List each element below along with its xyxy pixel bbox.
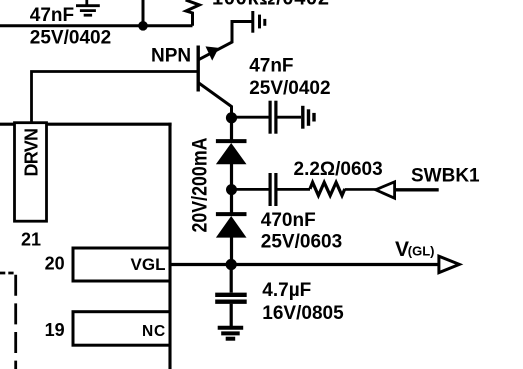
svg-text:(GL): (GL) [408, 244, 435, 259]
node junction dot 1 (emitter node) [226, 112, 237, 123]
svg-text:470nF: 470nF [261, 210, 316, 231]
wire dot2 to D2 [230, 190, 233, 214]
svg-text:47nF: 47nF [30, 5, 74, 26]
signal line VGL output [170, 263, 439, 266]
svg-text:16V/0805: 16V/0805 [262, 303, 344, 324]
collector lead [199, 22, 252, 60]
wire resistor to SWBK1 arrow [345, 188, 377, 191]
pin box DRVN [15, 123, 47, 222]
wire capacitor to ground [230, 304, 233, 326]
svg-text:VGL: VGL [131, 255, 166, 274]
IC outline top edge [0, 123, 172, 126]
resistor 2.2Ohm/0603 [310, 182, 345, 195]
wire D1 to dot2 [230, 163, 233, 190]
node junction dot 3 (VGL node) [226, 259, 237, 270]
capacitor 47nF 25V/0402 [270, 101, 276, 134]
open arrow V(GL) (points right) [439, 256, 459, 272]
capacitor 4.7uF 16V/0805 [215, 295, 247, 302]
wire dot1 to capacitor C 47nF [232, 116, 269, 119]
ground (bottom, vertical symbol) [218, 328, 244, 339]
wire dot2 to capacitor 470nF [232, 188, 269, 191]
wire capacitor to resistor [277, 188, 310, 191]
base bar [196, 46, 199, 92]
pin box VGL [73, 248, 170, 281]
svg-text:25V/0402: 25V/0402 [30, 28, 111, 49]
svg-text:25V/0402: 25V/0402 [249, 78, 330, 99]
pin box NC [73, 312, 170, 346]
wire top-left horizontal [0, 24, 193, 27]
svg-text:100kΩ/0402: 100kΩ/0402 [212, 0, 329, 10]
svg-text:2.2Ω/0603: 2.2Ω/0603 [294, 159, 383, 180]
diode D1 [216, 141, 247, 164]
ground (top-left, vertical symbol) [76, 0, 100, 15]
svg-text:NPN: NPN [151, 45, 191, 66]
svg-text:4.7µF: 4.7µF [262, 280, 311, 301]
wire base to IC [32, 72, 199, 125]
svg-text:21: 21 [21, 230, 41, 250]
IC outline right edge [168, 123, 171, 369]
dashed boundary horizontal [0, 272, 16, 275]
node junction dot top-left [138, 21, 148, 31]
wire dot3 to capacitor 4.7uF [230, 265, 233, 293]
resistor 100kOhm/0402 (clipped at top) [186, 0, 200, 26]
emitter lead [199, 83, 232, 118]
svg-text:19: 19 [45, 320, 65, 340]
diode D2 [216, 214, 247, 238]
svg-text:25V/0603: 25V/0603 [261, 231, 342, 252]
svg-text:DRVN: DRVN [22, 128, 42, 177]
transistor Q1 NPN [198, 22, 251, 119]
ground (top-right, horizontal symbol) [253, 11, 265, 33]
open arrow SWBK1 (points left) [376, 182, 395, 198]
dashed boundary vertical [14, 273, 17, 369]
wire rail dot1 to D1 [230, 118, 233, 141]
wire D2 to dot3 [230, 236, 233, 265]
signal line SWBK1 [395, 188, 439, 191]
svg-text:47nF: 47nF [249, 56, 293, 77]
wire capacitor to ground [277, 116, 301, 119]
node junction dot 2 [226, 184, 237, 195]
capacitor 470nF 25V/0603 [270, 173, 276, 206]
wire vertical stub above junction [142, 0, 145, 26]
ground (mid-right, horizontal symbol) [303, 106, 314, 129]
arrow on upper lead [206, 46, 219, 60]
svg-text:20V/200mA: 20V/200mA [189, 138, 212, 233]
svg-text:20: 20 [45, 253, 65, 273]
svg-text:NC: NC [142, 323, 166, 340]
svg-text:SWBK1: SWBK1 [411, 165, 480, 186]
